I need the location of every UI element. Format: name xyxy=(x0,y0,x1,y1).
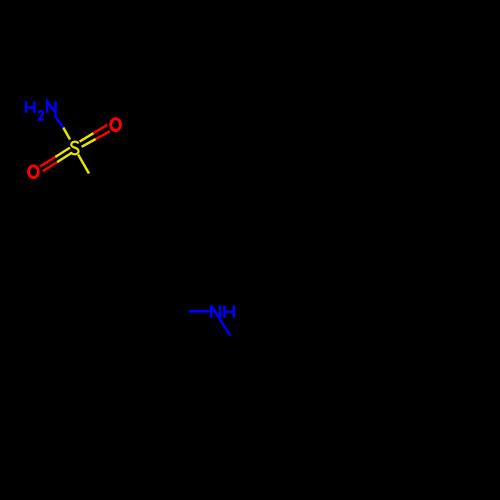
bond S=O (lower left, line 1, yellow half) xyxy=(55,148,70,157)
bond S=O (upper right, line 1, red half) xyxy=(94,125,108,133)
bond S-C (yellow half toward carbon chain) xyxy=(78,155,89,174)
bond S=O (upper right, line 1, yellow half) xyxy=(80,133,94,141)
bond S=O (lower left, line 2, red half) xyxy=(43,162,57,171)
atom label H2N (amine nitrogen of sulfonamide) xyxy=(26,101,55,120)
atom label NH (secondary amine) xyxy=(211,305,234,319)
bond N-C (diagonal blue half from NH down-right, collinear with N letter diagonal) xyxy=(220,319,230,335)
bond S=O (upper right, line 2, red half) xyxy=(96,131,110,139)
bond N-S (yellow half) xyxy=(63,128,70,140)
bond S=O (lower left, line 1, red half) xyxy=(40,157,55,166)
atom label O (lower left oxygen) xyxy=(29,166,39,178)
bond S=O (upper right, line 2, yellow half) xyxy=(82,139,96,147)
bond S=O (lower left, line 2, yellow half) xyxy=(57,153,71,162)
bond N-S (blue half) xyxy=(54,115,63,127)
atom label S (sulfur) xyxy=(71,142,79,155)
bond C-N (horizontal blue half into NH) xyxy=(189,310,210,313)
atom label O (upper right oxygen) xyxy=(111,119,121,131)
